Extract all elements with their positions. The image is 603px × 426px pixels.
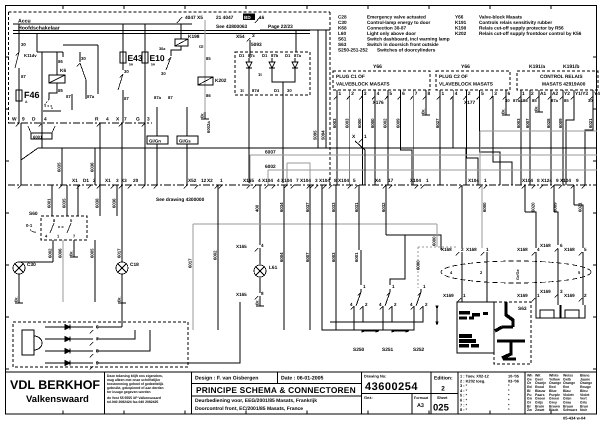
svg-text:C30: C30 <box>27 262 36 268</box>
svg-text:6000: 6000 <box>432 236 437 246</box>
svg-text:4: 4 <box>377 91 380 97</box>
svg-text:1: 1 <box>426 178 429 183</box>
svg-text:16: 16 <box>259 15 265 21</box>
svg-text:03-'06: 03-'06 <box>508 378 520 383</box>
svg-text:Br.: Br. <box>200 113 205 118</box>
svg-text:Noir: Noir <box>580 408 588 412</box>
svg-text:6003: 6003 <box>516 118 521 128</box>
svg-text:3: 3 <box>494 91 497 97</box>
svg-text:6007: 6007 <box>525 118 530 128</box>
svg-text:86: 86 <box>58 59 63 64</box>
svg-text:9: 9 <box>22 117 25 123</box>
svg-text:2: 2 <box>93 178 96 183</box>
svg-text:Gez:: Gez: <box>364 395 373 400</box>
svg-text:6004: 6004 <box>279 252 284 262</box>
svg-text:3: 3 <box>315 178 318 183</box>
svg-text:8 : *: 8 : * <box>460 407 468 412</box>
svg-text:2: 2 <box>461 247 464 252</box>
svg-text:Gl: Gl <box>199 44 203 49</box>
svg-text:43600254: 43600254 <box>365 381 418 393</box>
svg-text:6001: 6001 <box>354 252 359 262</box>
svg-text:6002: 6002 <box>383 118 388 128</box>
svg-text:6028: 6028 <box>546 118 551 128</box>
svg-text:6: 6 <box>560 243 563 248</box>
svg-text:5: 5 <box>481 91 484 97</box>
svg-text:5A: 5A <box>129 63 134 67</box>
svg-text:K202: K202 <box>215 78 227 84</box>
svg-text:85: 85 <box>564 98 569 103</box>
svg-text:4: 4 <box>258 178 261 183</box>
svg-text:K68: K68 <box>338 26 347 31</box>
svg-text:A2: A2 <box>552 91 558 97</box>
svg-text:6036: 6036 <box>112 198 117 208</box>
svg-text:6009: 6009 <box>553 202 558 212</box>
svg-text:X54: X54 <box>236 34 245 40</box>
svg-text:Y4: Y4 <box>594 91 600 97</box>
svg-text:6034: 6034 <box>279 202 284 212</box>
svg-text:6: 6 <box>402 91 405 97</box>
svg-text:87a: 87a <box>551 98 559 103</box>
svg-text:PLUG C1 OF: PLUG C1 OF <box>336 74 365 80</box>
svg-text:X104: X104 <box>410 178 421 183</box>
svg-text:CONTROL RELAIS: CONTROL RELAIS <box>540 74 583 80</box>
svg-text:9: 9 <box>96 361 99 367</box>
svg-text:X169: X169 <box>443 293 454 298</box>
svg-text:6031: 6031 <box>354 202 359 212</box>
svg-text:Y1/Y3: Y1/Y3 <box>575 91 588 97</box>
svg-text:6003: 6003 <box>331 252 336 262</box>
svg-text:6002: 6002 <box>213 250 218 260</box>
svg-text:7: 7 <box>96 337 99 343</box>
svg-text:Sheet: Sheet <box>437 396 448 400</box>
svg-text:VDL BERKHOF: VDL BERKHOF <box>10 378 100 392</box>
svg-text:D1: D1 <box>262 53 268 58</box>
svg-text:K198: K198 <box>188 34 200 40</box>
svg-text:Br.: Br. <box>69 251 74 256</box>
svg-text:K202: K202 <box>455 31 467 36</box>
svg-text:2: 2 <box>351 91 354 97</box>
svg-text:K191/a: K191/a <box>529 64 545 70</box>
svg-text:X1: X1 <box>105 178 111 183</box>
svg-text:5: 5 <box>584 247 587 252</box>
svg-text:Br.: Br. <box>14 297 19 302</box>
svg-text:5094: 5094 <box>321 130 326 140</box>
svg-text:S63: S63 <box>518 306 527 312</box>
svg-text:X168: X168 <box>466 247 477 252</box>
svg-text:X104: X104 <box>300 178 311 183</box>
svg-text:5093: 5093 <box>251 42 262 48</box>
svg-text:9: 9 <box>556 178 559 183</box>
svg-text:K11dv: K11dv <box>24 53 37 58</box>
svg-text:X104: X104 <box>338 178 349 183</box>
svg-text:Deurbediening voor, EEG/2001/8: Deurbediening voor, EEG/2001/85 Masats, … <box>195 398 317 404</box>
svg-text:Zwart: Zwart <box>535 408 545 412</box>
svg-text:2: 2 <box>531 91 534 97</box>
svg-text:Formaat: Formaat <box>414 396 429 400</box>
svg-text:X176: X176 <box>373 100 385 106</box>
svg-text:21 4047: 21 4047 <box>216 15 234 21</box>
svg-text:Date : 06-01-2005: Date : 06-01-2005 <box>281 376 324 382</box>
svg-text:Zw: Zw <box>527 408 532 412</box>
svg-text:1: 1 <box>486 247 489 252</box>
svg-text:3: 3 <box>147 117 150 123</box>
svg-text:6007: 6007 <box>305 252 310 262</box>
svg-text:6003: 6003 <box>332 118 337 128</box>
svg-text:See 43800063: See 43800063 <box>216 24 248 30</box>
svg-text:8: 8 <box>261 291 264 296</box>
svg-text:2: 2 <box>441 386 445 393</box>
svg-text:MASATS 42919A00: MASATS 42919A00 <box>542 82 586 88</box>
svg-text:9: 9 <box>576 178 579 183</box>
svg-text:A1: A1 <box>540 91 546 97</box>
svg-text:6000: 6000 <box>482 202 487 212</box>
svg-text:3: 3 <box>364 91 367 97</box>
svg-text:Br.: Br. <box>534 106 539 111</box>
svg-text:87: 87 <box>21 74 26 79</box>
svg-text:Drawing No:: Drawing No: <box>364 375 386 379</box>
svg-text:Connection 30-87: Connection 30-87 <box>367 26 406 31</box>
svg-text:X104: X104 <box>319 178 330 183</box>
svg-text:05-434 w-04: 05-434 w-04 <box>563 416 586 421</box>
svg-text:5: 5 <box>389 91 392 97</box>
svg-text:6037: 6037 <box>305 202 310 212</box>
svg-text:D1: D1 <box>239 53 245 58</box>
svg-text:6017: 6017 <box>117 248 122 258</box>
svg-text:1: 1 <box>463 293 466 298</box>
svg-text:X2: X2 <box>207 178 213 183</box>
svg-text:8: 8 <box>96 349 99 355</box>
svg-text:Br.: Br. <box>421 109 426 114</box>
svg-text:Y66: Y66 <box>455 15 464 20</box>
svg-text:87b: 87b <box>271 53 279 58</box>
svg-text:C18: C18 <box>130 262 139 268</box>
svg-text:6027: 6027 <box>435 118 440 128</box>
svg-text:Y66: Y66 <box>373 64 382 70</box>
svg-text:7: 7 <box>415 91 418 97</box>
svg-text:5095: 5095 <box>313 130 318 140</box>
svg-text:X52: X52 <box>188 178 197 183</box>
svg-text:2: 2 <box>584 293 587 298</box>
svg-text:0-1: 0-1 <box>26 223 33 228</box>
svg-text:6009: 6009 <box>395 118 400 128</box>
svg-text:X104: X104 <box>281 178 292 183</box>
svg-text:3: 3 <box>252 33 255 39</box>
svg-text:X3: X3 <box>121 178 127 183</box>
svg-text:5: 5 <box>353 178 356 183</box>
svg-text:30: 30 <box>161 71 166 76</box>
svg-text:Gl/Gn: Gl/Gn <box>149 139 161 144</box>
svg-text:30: 30 <box>81 56 86 61</box>
svg-text:Light only above door: Light only above door <box>367 31 416 36</box>
svg-text:Emergency valve actuated: Emergency valve actuated <box>367 15 426 20</box>
svg-text:S250-251-252: S250-251-252 <box>338 48 368 53</box>
svg-text:6003: 6003 <box>345 118 350 128</box>
svg-text:S60: S60 <box>29 211 38 217</box>
svg-text:1t: 1t <box>258 72 262 77</box>
svg-text:87d: 87d <box>252 88 260 93</box>
svg-text:1: 1 <box>442 91 445 97</box>
svg-text:BD: BD <box>244 15 251 20</box>
svg-text:7: 7 <box>296 178 299 183</box>
svg-text:6032: 6032 <box>381 202 386 212</box>
svg-text:X104: X104 <box>522 178 533 183</box>
svg-text:2: 2 <box>468 91 471 97</box>
svg-text:Design : F. van Gisbergen: Design : F. van Gisbergen <box>195 376 258 382</box>
svg-text:87a: 87a <box>154 95 162 100</box>
svg-text:Black: Black <box>549 408 558 412</box>
svg-text:S252: S252 <box>413 347 425 353</box>
svg-text:12: 12 <box>201 178 207 183</box>
svg-text:D: D <box>32 117 36 123</box>
svg-text:X165: X165 <box>236 244 247 249</box>
svg-text:Page 22/23: Page 22/23 <box>268 24 293 30</box>
svg-text:Gr/Ge: Gr/Ge <box>516 269 520 280</box>
svg-text:Schwarz: Schwarz <box>563 408 577 412</box>
svg-text:1: 1 <box>364 134 367 140</box>
svg-text:6000: 6000 <box>357 118 362 128</box>
svg-text:W: W <box>12 117 17 123</box>
svg-text:X168: X168 <box>564 247 575 252</box>
svg-text:PRINCIPE SCHEMA & CONNECTOREN: PRINCIPE SCHEMA & CONNECTOREN <box>196 385 356 395</box>
svg-text:6035: 6035 <box>57 162 62 172</box>
svg-text:6038: 6038 <box>95 198 100 208</box>
svg-text:6009: 6009 <box>558 118 563 128</box>
svg-text:1: 1 <box>339 91 342 97</box>
svg-text:VALVEBLOCK MASATS: VALVEBLOCK MASATS <box>336 82 390 88</box>
svg-text:86: 86 <box>206 93 211 98</box>
svg-text:X4: X4 <box>375 178 381 183</box>
svg-text:F46: F46 <box>24 90 40 100</box>
svg-text:6006: 6006 <box>58 248 63 258</box>
svg-text:6002a: 6002a <box>206 121 211 133</box>
svg-text:400: 400 <box>255 204 260 212</box>
svg-text:PLUG C2 OF: PLUG C2 OF <box>439 74 468 80</box>
svg-text:87a: 87a <box>294 53 302 58</box>
svg-text:Switch in doorsich front outsi: Switch in doorsich front outside <box>367 42 439 47</box>
svg-text:K191/b: K191/b <box>563 64 579 70</box>
svg-text:4: 4 <box>277 178 280 183</box>
svg-text:X1: X1 <box>72 178 78 183</box>
svg-text:Switch dashboard, incl warning: Switch dashboard, incl warning lamp <box>367 37 450 42</box>
svg-text:ter inzage gegeven worden: ter inzage gegeven worden <box>107 390 151 394</box>
svg-text:4: 4 <box>261 243 264 248</box>
svg-text:87: 87 <box>66 94 71 99</box>
svg-text:6036: 6036 <box>90 162 95 172</box>
svg-text:Y66: Y66 <box>461 64 470 70</box>
svg-text:C28: C28 <box>338 15 347 20</box>
svg-text:85: 85 <box>58 88 63 93</box>
svg-text:Relais cut-off supply protecto: Relais cut-off supply protector by R56 <box>479 26 564 31</box>
svg-text:20: 20 <box>133 178 139 183</box>
svg-text:85: 85 <box>532 98 537 103</box>
svg-text:87a: 87a <box>87 94 95 99</box>
svg-text:6000: 6000 <box>370 118 375 128</box>
svg-text:A3: A3 <box>417 403 424 409</box>
svg-text:E10: E10 <box>150 53 165 63</box>
svg-text:X169: X169 <box>517 293 528 298</box>
svg-text:4: 4 <box>455 91 458 97</box>
svg-text:7: 7 <box>124 117 127 123</box>
svg-text:Valkenswaard: Valkenswaard <box>26 394 89 405</box>
svg-text:6001: 6001 <box>47 198 52 208</box>
svg-text:5A: 5A <box>151 63 156 67</box>
svg-text:E43: E43 <box>128 53 143 63</box>
svg-text:4: 4 <box>44 117 47 123</box>
svg-text:Valve-block Masats: Valve-block Masats <box>479 15 522 20</box>
svg-text:8: 8 <box>428 91 431 97</box>
svg-text:8: 8 <box>537 178 540 183</box>
svg-text:6002: 6002 <box>48 248 53 258</box>
svg-text:1: 1 <box>522 91 525 97</box>
svg-text:D1: D1 <box>83 178 89 183</box>
svg-text:30: 30 <box>287 88 292 93</box>
svg-text:X104: X104 <box>262 178 273 183</box>
svg-text:6020: 6020 <box>531 202 536 212</box>
svg-text:6035: 6035 <box>62 198 67 208</box>
svg-text:30: 30 <box>21 42 26 47</box>
svg-text:G: G <box>136 117 140 123</box>
svg-text:X104: X104 <box>468 178 479 183</box>
svg-text:X169: X169 <box>540 289 551 294</box>
svg-text:1t: 1t <box>240 88 244 93</box>
svg-text:6002: 6002 <box>265 164 276 170</box>
svg-text:Y2: Y2 <box>564 91 570 97</box>
svg-text:4047 X5: 4047 X5 <box>185 15 203 21</box>
svg-text:X165: X165 <box>243 178 254 183</box>
svg-text:X124: X124 <box>541 178 552 183</box>
svg-text:Br.: Br. <box>117 297 122 302</box>
svg-text:S250: S250 <box>353 347 365 353</box>
svg-text:X169: X169 <box>564 293 575 298</box>
svg-text:6000: 6000 <box>416 260 421 270</box>
svg-text:025: 025 <box>433 403 450 414</box>
svg-text:See drawing 4300000: See drawing 4300000 <box>156 197 205 203</box>
svg-text:S63: S63 <box>338 42 347 47</box>
svg-text:K191: K191 <box>455 20 467 25</box>
svg-text:6007: 6007 <box>265 150 276 156</box>
svg-text:S61: S61 <box>338 37 347 42</box>
svg-text:D1: D1 <box>285 53 291 58</box>
svg-text:L60: L60 <box>338 31 346 36</box>
svg-text:K6: K6 <box>60 68 66 74</box>
svg-text:X165: X165 <box>236 292 247 297</box>
svg-text:VLAVEBLOCK MASATS: VLAVEBLOCK MASATS <box>439 82 494 88</box>
svg-text:Br.: Br. <box>501 109 506 114</box>
svg-text:D1: D1 <box>274 88 280 93</box>
svg-text:30a: 30a <box>159 47 166 51</box>
svg-text:X168: X168 <box>441 247 452 252</box>
svg-text:L61: L61 <box>269 265 278 271</box>
svg-text:6017: 6017 <box>188 258 193 268</box>
svg-text:Relais cut-off supply frontdoo: Relais cut-off supply frontdoor control … <box>479 31 582 36</box>
svg-text:Switches of doorcylinders: Switches of doorcylinders <box>377 48 436 53</box>
svg-text:85: 85 <box>206 56 211 61</box>
svg-text:S251: S251 <box>382 347 394 353</box>
svg-text:3: 3 <box>560 289 563 294</box>
svg-text:8: 8 <box>334 178 337 183</box>
svg-text:Br.: Br. <box>255 300 260 305</box>
svg-text:1: 1 <box>484 178 487 183</box>
svg-text:3: 3 <box>116 178 119 183</box>
svg-text:6: 6 <box>96 325 99 331</box>
svg-text:Gl/Gs: Gl/Gs <box>179 139 191 144</box>
svg-text:6021: 6021 <box>588 118 593 128</box>
svg-text:Control-lamp energy to door: Control-lamp energy to door <box>367 20 430 25</box>
svg-text:17: 17 <box>388 178 394 183</box>
svg-text:1: 1 <box>220 178 223 183</box>
svg-text:30: 30 <box>124 69 129 74</box>
svg-text:6033: 6033 <box>331 202 336 212</box>
svg-text:X177: X177 <box>464 100 476 106</box>
svg-text:87c: 87c <box>248 53 256 58</box>
svg-text:6021: 6021 <box>578 202 583 212</box>
svg-text:Edition:: Edition: <box>434 376 453 382</box>
svg-text:Doorcontrol front, EC/2001/85: Doorcontrol front, EC/2001/85 Masats, Fr… <box>195 406 303 412</box>
svg-text:87: 87 <box>124 96 129 101</box>
svg-text:Controls relais sensitivity ru: Controls relais sensitivity rubber <box>479 20 552 25</box>
svg-text:6: 6 <box>508 91 511 97</box>
svg-text:X168: X168 <box>540 243 551 248</box>
svg-text:6001: 6001 <box>33 135 43 140</box>
svg-text:R: R <box>95 117 99 123</box>
svg-text:tel.040 2082424 fax.040 208242: tel.040 2082424 fax.040 2082425 <box>107 400 158 404</box>
svg-text:4: 4 <box>106 117 109 123</box>
svg-text:6005: 6005 <box>90 248 95 258</box>
svg-text:X104: X104 <box>560 178 571 183</box>
svg-text:X168: X168 <box>517 247 528 252</box>
svg-text:87: 87 <box>168 95 173 100</box>
svg-text:C30: C30 <box>338 20 347 25</box>
svg-text:K198: K198 <box>455 26 467 31</box>
